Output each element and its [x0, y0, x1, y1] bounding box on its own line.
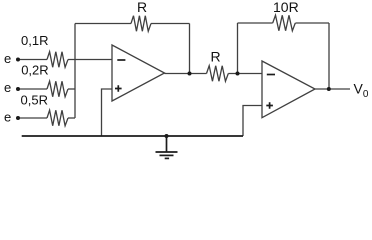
ground [156, 136, 178, 158]
node e3 terminal [16, 116, 20, 120]
svg-text:0,1R: 0,1R [21, 33, 48, 48]
wire summing bus vertical [74, 24, 76, 119]
wire ground rail [22, 135, 243, 137]
U1 plus sign [115, 85, 122, 92]
resistor 0,2R [47, 81, 68, 97]
node U1 output junction [188, 72, 192, 76]
wire feedback right drop to U1 output [189, 24, 191, 74]
node e1 terminal [16, 58, 20, 62]
wire U2 output to V0 [315, 88, 350, 90]
resistor 0,1R [47, 52, 68, 68]
wire feedback top right segment [151, 23, 190, 25]
svg-text:e: e [4, 80, 11, 95]
svg-text:R: R [211, 49, 221, 65]
wire input row 1 left [18, 59, 47, 61]
wire feedback top left segment [75, 23, 131, 25]
svg-text:0,2R: 0,2R [21, 63, 48, 78]
op-amp U1 [112, 45, 165, 101]
resistor R feedback U1 [131, 16, 151, 32]
wire feedback 2 right drop to U2 output [328, 23, 330, 89]
wire row 2 to summing bus [68, 88, 75, 90]
U2 minus sign [267, 74, 275, 76]
wire U2 noninverting input [243, 106, 262, 137]
U1 minus sign [117, 59, 125, 61]
node U2 inverting junction [236, 72, 240, 76]
node e2 terminal [16, 87, 20, 91]
wire input row 2 left [18, 88, 47, 90]
svg-text:V0: V0 [354, 80, 369, 99]
resistor 10R feedback U2 [273, 15, 296, 31]
node V0 junction [327, 87, 331, 91]
resistor R series [207, 66, 229, 82]
svg-text:e: e [4, 51, 11, 66]
wire feedback 2 top right segment [295, 22, 329, 24]
wire U1 noninverting input [102, 89, 113, 136]
op-amp U2 [262, 61, 315, 118]
wire input row 3 left [18, 117, 47, 119]
resistor 0,5R [47, 110, 68, 126]
node ground junction [165, 134, 169, 138]
svg-text:0,5R: 0,5R [21, 92, 48, 107]
svg-text:10R: 10R [273, 0, 299, 15]
svg-text:R: R [137, 0, 147, 15]
wire row 1 to op-amp U1 inverting input [68, 59, 112, 61]
wire feedback 2 top left segment [238, 22, 273, 24]
wire feedback 2 left riser [237, 23, 239, 74]
wire series resistor to U2 inverting input [228, 73, 262, 75]
wire U1 output to series resistor [165, 73, 207, 75]
wire row 3 to summing bus [68, 117, 75, 119]
svg-text:e: e [4, 109, 11, 124]
U2 plus sign [266, 102, 273, 109]
